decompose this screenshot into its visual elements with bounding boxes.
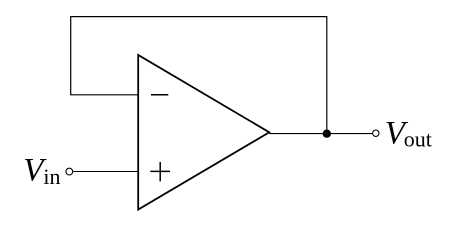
svg-text:out: out <box>404 126 432 151</box>
svg-text:in: in <box>43 164 60 189</box>
